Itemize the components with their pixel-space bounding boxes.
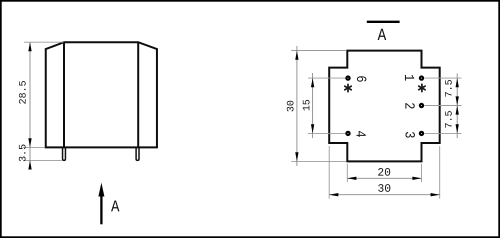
pin 4 circle bbox=[346, 132, 349, 135]
pin 1 circle bbox=[420, 77, 423, 80]
label 30 (left) bbox=[287, 101, 294, 112]
view direction arrow bbox=[100, 196, 102, 225]
dimension line 28.5/3.5 bbox=[29, 42, 31, 169]
label 7.5 (upper) bbox=[445, 80, 452, 97]
pin 6 circle bbox=[346, 77, 349, 80]
label 30 (bottom) bbox=[378, 184, 390, 192]
extension line 20-right bbox=[421, 164, 423, 182]
extension line body bottom bbox=[23, 146, 45, 148]
overline of A bbox=[367, 21, 400, 23]
arrowhead down at body bottom bbox=[28, 138, 31, 147]
dimension line 20 bbox=[347, 177, 421, 179]
body inner edge right bbox=[137, 42, 139, 147]
dimension line 30 (bottom) bbox=[329, 194, 440, 196]
extension line 20-left bbox=[346, 164, 348, 182]
label 28.5 bbox=[19, 81, 26, 104]
pin 3 circle bbox=[420, 132, 423, 135]
pin number 1 bbox=[405, 75, 414, 81]
pin number 6 bbox=[357, 76, 367, 81]
cross-shaped outline bbox=[329, 51, 440, 162]
pin number 3 bbox=[405, 132, 415, 138]
extension line 15-top (from pin 6) bbox=[308, 77, 345, 79]
extension line 30-top bbox=[291, 50, 346, 52]
pin number 2 bbox=[405, 103, 414, 108]
pin right (front view) bbox=[136, 147, 139, 160]
pin 2 circle bbox=[420, 104, 423, 107]
extension line from pin 2 bbox=[424, 105, 461, 107]
label 3.5 bbox=[19, 145, 26, 162]
extension line top (28.5) bbox=[24, 41, 63, 43]
pin number 4 bbox=[356, 131, 365, 137]
label A (view name) bbox=[378, 29, 387, 40]
label A (view arrow) bbox=[111, 201, 119, 212]
asterisk at pin 1 bbox=[419, 84, 425, 91]
extension line 30b-right bbox=[439, 146, 441, 199]
dimension line 7.5/7.5 bbox=[456, 74, 458, 139]
pin left (front view) bbox=[63, 147, 66, 160]
extension line from pin 3 bbox=[424, 132, 461, 134]
arrowhead up at pin bottom bbox=[28, 160, 31, 169]
dimension line 30 (left) bbox=[296, 46, 298, 166]
body inner edge left bbox=[63, 42, 65, 147]
label 15 bbox=[303, 100, 310, 111]
extension line pin bottom (3.5) bbox=[23, 159, 62, 161]
transformer body outline bbox=[46, 42, 157, 147]
label 7.5 (lower) bbox=[445, 111, 452, 128]
extension line 30-bottom bbox=[291, 160, 346, 162]
dimension line 15 bbox=[312, 73, 314, 138]
arrowhead up at top bbox=[28, 42, 31, 51]
asterisk at pin 6 bbox=[345, 84, 351, 91]
extension line 30b-left bbox=[328, 146, 330, 199]
extension line from pin 1 bbox=[424, 77, 461, 79]
label 20 bbox=[378, 168, 390, 176]
extension line 15-bottom (from pin 4) bbox=[308, 132, 345, 134]
